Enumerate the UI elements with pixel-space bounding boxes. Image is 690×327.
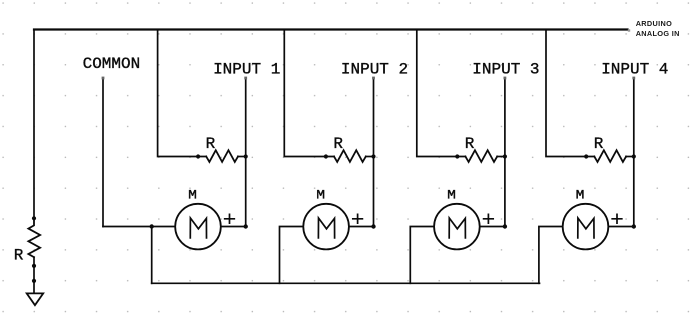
junction: R2/INPUT 2 (371, 154, 375, 158)
svg-text:INPUT 3: INPUT 3 (472, 60, 539, 78)
wire: M1 right lead (221, 226, 246, 228)
svg-text:R: R (333, 135, 343, 153)
pin marker INPUT 2 top (372, 77, 375, 80)
wire: COMMON vertical (102, 78, 104, 227)
wire: drop from top bus to R4 (546, 30, 594, 157)
junction: M2 plus / INPUT 2 (371, 224, 375, 228)
junction: R3/INPUT 3 (503, 154, 507, 158)
wire: INPUT 1 vertical (245, 78, 247, 227)
svg-text:INPUT 1: INPUT 1 (213, 60, 280, 78)
wire: INPUT 4 vertical (633, 78, 635, 227)
resistor R2 (334, 150, 366, 162)
svg-text:R: R (206, 135, 216, 153)
wire: R1 to INPUT 1 wire (238, 156, 246, 158)
resistor R3 (465, 150, 497, 162)
junction: M3 plus / INPUT 3 (503, 224, 507, 228)
polarity + of M4 (612, 214, 622, 223)
pin marker COMMON top (102, 77, 105, 80)
motor M2 (303, 188, 349, 250)
wire: left rail down to R5 (33, 30, 35, 219)
wire: ARDUINO ANALOG IN top bus (34, 28, 628, 30)
wire: drop from top bus to R2 (284, 30, 334, 157)
wire: drop from top bus to R1 (158, 30, 207, 157)
pin marker INPUT 4 top (632, 77, 635, 80)
svg-text:ARDUINO: ARDUINO (636, 19, 673, 28)
wire: INPUT 3 vertical (504, 78, 506, 227)
pin marker INPUT 3 top (504, 77, 507, 80)
resistor R4 (594, 150, 626, 162)
junction: R4 left node (584, 154, 588, 158)
polarity + of M1 (225, 214, 235, 223)
wire: COMMON to motor M1 (103, 226, 175, 228)
svg-text:INPUT 2: INPUT 2 (341, 60, 408, 78)
svg-text:INPUT 4: INPUT 4 (601, 60, 668, 78)
wire: M3 left lead + riser to bottom bus (410, 227, 434, 284)
pin dot R5 top (32, 216, 36, 220)
junction: R3 left node (455, 154, 459, 158)
wire: R5 to ground (33, 257, 35, 293)
wire: M2 left lead + riser to bottom bus (280, 227, 304, 284)
svg-text:R: R (465, 135, 475, 153)
wire: M4 left lead + riser to bottom bus (539, 227, 563, 284)
motor M3 (434, 188, 480, 250)
wire: INPUT 2 vertical (373, 78, 375, 227)
svg-text:R: R (14, 246, 24, 264)
junction: M4 plus / INPUT 4 (632, 224, 636, 228)
svg-text:R: R (594, 135, 604, 153)
wire: bottom common bus (152, 282, 540, 284)
wire: riser to bottom bus (151, 227, 153, 284)
pin marker INPUT 1 top (244, 77, 247, 80)
wire: M3 right lead (480, 226, 505, 228)
motor M1 (175, 188, 221, 250)
resistor R1 (206, 150, 238, 162)
wire: M4 right lead (608, 226, 634, 228)
svg-text:M: M (576, 188, 585, 203)
pin marker top bus right end (628, 29, 630, 31)
junction: R4/INPUT 4 (632, 154, 636, 158)
ground symbol (27, 293, 44, 305)
svg-text:ANALOG IN: ANALOG IN (636, 29, 680, 38)
junction: R1 left node (196, 154, 200, 158)
node dot above ground (32, 279, 36, 283)
svg-text:M: M (447, 188, 456, 203)
resistor R5 (vertical) (28, 218, 40, 257)
pin dot R5 bottom (32, 264, 36, 268)
wire: R3 to INPUT 3 wire (497, 156, 505, 158)
junction: M1 plus / INPUT 1 (244, 224, 248, 228)
junction: common/bottom-bus riser (150, 224, 154, 228)
motor M4 (563, 188, 609, 250)
polarity + of M3 (484, 214, 494, 223)
svg-text:M: M (188, 188, 197, 203)
wire: drop from top bus to R3 (417, 30, 466, 157)
wire: R2 to INPUT 2 wire (366, 156, 374, 158)
polarity + of M2 (353, 214, 363, 223)
junction: R2 left node (324, 154, 328, 158)
wire: R4 to INPUT 4 wire (626, 156, 634, 158)
junction: R1/INPUT 1 (244, 154, 248, 158)
svg-text:COMMON: COMMON (83, 55, 141, 73)
svg-text:M: M (316, 188, 325, 203)
wire: M2 right lead (349, 226, 374, 228)
